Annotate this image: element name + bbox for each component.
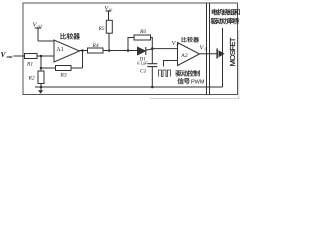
wire Vref terminal (35, 27, 41, 29)
resistor R6 parallel (134, 35, 151, 40)
svg-text:cc: cc (109, 8, 113, 12)
wire divider vertical (40, 56, 42, 71)
label drive control signal line 1 (175, 70, 199, 76)
wire feedback horizontal (41, 67, 56, 69)
wire (146, 49, 153, 50)
ground (40, 87, 42, 91)
node C1 ground (151, 86, 154, 89)
op-amp A2 (178, 43, 200, 66)
node at R1 right (40, 55, 43, 58)
node filter (151, 47, 154, 50)
wire bottom rail (35, 86, 223, 88)
svg-text:MOSFET: MOSFET (228, 37, 237, 66)
node A1 output (81, 49, 84, 52)
resistor R2 (38, 71, 44, 84)
svg-text:R2: R2 (28, 76, 35, 82)
wire Vcc terminal (106, 10, 111, 12)
wire A1 output (80, 50, 88, 52)
svg-text:R1: R1 (26, 62, 33, 68)
resistor R5 pull-up (106, 20, 112, 33)
svg-text:P: P (176, 42, 180, 47)
wire (40, 84, 42, 88)
label drive control signal line 2 (178, 78, 190, 84)
label comparator 1 (60, 33, 79, 39)
node ground rail left (40, 86, 43, 89)
outer page frame fragment (238, 30, 240, 99)
capacitor C1 (151, 49, 153, 64)
node feedback tap (40, 67, 43, 70)
op-amp A1 (54, 40, 80, 62)
border frame (23, 3, 238, 95)
wire rail mid (103, 50, 138, 52)
scan artifact vertical band (16, 15, 18, 86)
gate arrow (219, 50, 225, 57)
svg-text:R3: R3 (60, 73, 67, 79)
svg-text:A1: A1 (56, 47, 63, 53)
wire to A1 + input (38, 40, 55, 42)
wire to A2 (152, 48, 177, 50)
svg-text:A2: A2 (181, 53, 188, 59)
wire MOSFET block vertical (222, 28, 224, 87)
wire (108, 33, 110, 50)
svg-text:C1: C1 (140, 69, 147, 75)
wire parallel loop (128, 38, 152, 51)
svg-text:out: out (7, 54, 14, 59)
wire A2 lower input (164, 61, 178, 67)
label motor block line 1 (212, 9, 240, 15)
node loop left (127, 49, 130, 52)
partition double line (206, 3, 208, 95)
svg-text:R4: R4 (92, 42, 99, 49)
diode D1 (138, 47, 146, 55)
wire Vout input (14, 55, 25, 57)
svg-text:G: G (205, 47, 208, 52)
gate bar (216, 49, 218, 59)
wire (37, 55, 54, 57)
svg-text:R6: R6 (139, 29, 146, 35)
resistor R3 feedback (56, 66, 72, 71)
svg-text:R5: R5 (98, 26, 105, 32)
node pull-up (108, 49, 111, 52)
resistor R1 (25, 54, 38, 59)
svg-text:0.1μF: 0.1μF (137, 61, 148, 66)
wire A2 output (200, 53, 217, 55)
svg-text:PWM: PWM (191, 79, 205, 85)
resistor R4 series (88, 48, 104, 53)
label comparator 2 (182, 37, 199, 42)
label motor block line 2 (211, 18, 239, 24)
square wave symbol (159, 70, 171, 77)
wire feedback vertical (82, 51, 84, 69)
